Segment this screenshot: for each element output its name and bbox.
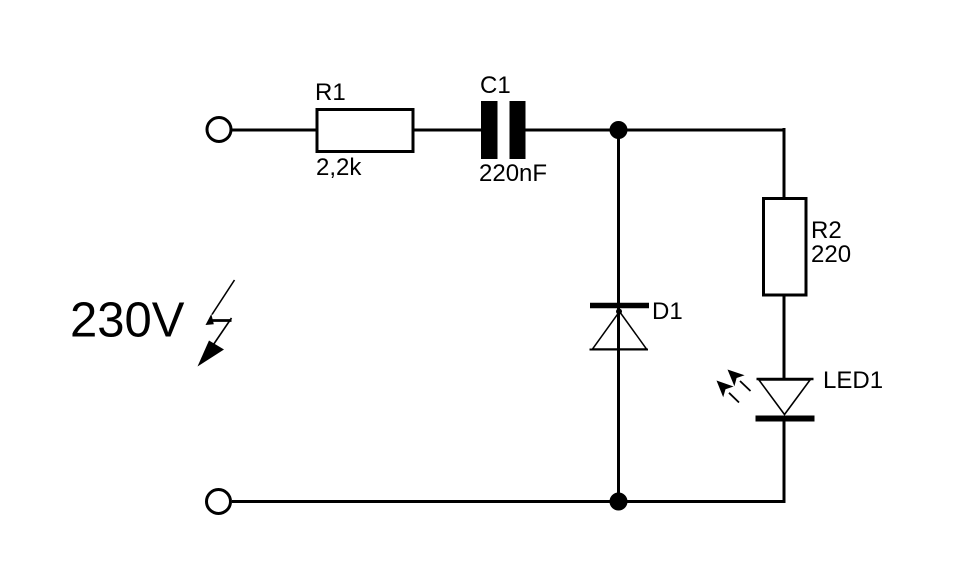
svg-text:R2: R2 [811, 217, 842, 244]
wire R1 to C1 [413, 129, 481, 132]
LED1 emission arrow 1 [728, 370, 751, 392]
bottom wire [232, 500, 784, 503]
terminal bottom-left [207, 490, 231, 514]
svg-text:220nF: 220nF [479, 160, 547, 187]
wire LED1 to bottom-right corner [783, 421, 786, 503]
node junction top [610, 121, 628, 139]
node junction bottom [610, 493, 628, 511]
resistor R2 [764, 199, 807, 296]
svg-text:R1: R1 [315, 79, 346, 106]
diode D1 anode line [590, 349, 649, 351]
svg-text:LED1: LED1 [823, 367, 883, 394]
resistor R1 [317, 110, 413, 152]
LED1 anode line [757, 378, 814, 381]
diode D1 triangle [593, 312, 647, 350]
wire R2 to LED1 [783, 295, 786, 379]
svg-text:D1: D1 [652, 298, 683, 325]
mains flash symbol [198, 280, 235, 367]
capacitor C1 [481, 101, 526, 159]
diode D1 apex dot [616, 309, 622, 315]
wire C1 to top-right corner [526, 129, 785, 132]
LED1 cathode bar [756, 416, 815, 422]
svg-text:230V: 230V [70, 294, 185, 348]
wire terminal to R1 [232, 129, 317, 132]
svg-text:C1: C1 [480, 72, 511, 99]
terminal top-left [207, 118, 231, 142]
LED1 emission arrow 2 [717, 381, 740, 403]
svg-text:220: 220 [811, 241, 851, 268]
LED LED1 triangle [759, 380, 810, 415]
wire node to D1 and through [617, 130, 620, 502]
svg-text:2,2k: 2,2k [316, 154, 362, 181]
wire down to R2 [783, 128, 786, 199]
diode D1 cathode bar [590, 303, 649, 309]
